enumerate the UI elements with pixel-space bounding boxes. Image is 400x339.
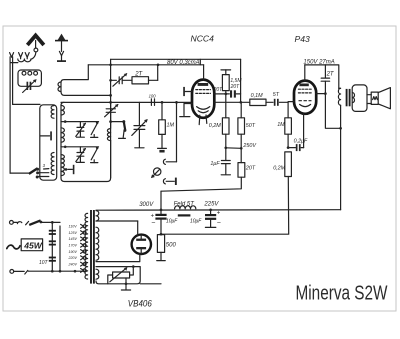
power transformer core xyxy=(91,210,94,284)
trimmer capacitor xyxy=(27,82,29,90)
oscillator coil below gang 1 xyxy=(107,129,110,141)
svg-text:+: + xyxy=(217,210,221,216)
coil unit box 1 xyxy=(40,105,57,180)
antenna input terminals (forks) xyxy=(10,53,14,58)
power rating box 45W xyxy=(7,239,43,251)
coupling capacitor 20T xyxy=(213,87,241,97)
wire (twin down-lead) xyxy=(9,57,11,173)
pickup input branch xyxy=(163,101,177,164)
B+ rail 300V/225V xyxy=(96,209,341,212)
resistor 2T xyxy=(132,77,149,84)
secondary winding xyxy=(352,93,354,103)
svg-text:220V: 220V xyxy=(68,256,78,260)
ground xyxy=(135,147,144,149)
mains input terminals and switch xyxy=(10,220,61,225)
tube NCC4 xyxy=(180,34,215,125)
electrolytic 10uF (smoothing) xyxy=(190,210,221,228)
svg-text:300V: 300V xyxy=(139,202,154,208)
svg-text:VB406: VB406 xyxy=(128,299,153,309)
node on tuning branch xyxy=(109,120,112,123)
input tuned-circuit box with trimmer xyxy=(18,70,41,93)
grid resistor 0,2M of second stage xyxy=(209,94,229,148)
trimmer arrow xyxy=(23,81,35,93)
svg-text:Minerva S2W: Minerva S2W xyxy=(296,282,388,305)
winding group b xyxy=(61,128,64,142)
svg-text:NCC4: NCC4 xyxy=(191,34,215,44)
svg-text:2T: 2T xyxy=(134,71,143,77)
anode plate xyxy=(299,84,308,87)
hum potentiometer xyxy=(113,272,130,278)
main vertical: tuning bus xyxy=(110,59,112,108)
resistor 0,1M xyxy=(250,93,273,105)
trimmer row 1 bus xyxy=(61,121,99,123)
wire antenna plug lead xyxy=(31,52,36,59)
screen lead xyxy=(304,65,306,81)
grids (dashed) xyxy=(196,89,211,91)
svg-text:0,2M: 0,2M xyxy=(209,123,221,129)
rectifier tube VB406 xyxy=(132,235,151,254)
speaker frame xyxy=(352,85,367,112)
antenna coupling coil L1 xyxy=(21,57,28,59)
trimmer row 2 bus xyxy=(61,146,99,148)
HT winding xyxy=(96,211,138,236)
winding group a xyxy=(61,105,64,115)
svg-text:80V 0,3cmA: 80V 0,3cmA xyxy=(167,60,200,66)
svg-text:P43: P43 xyxy=(295,34,311,44)
resistor 500 xyxy=(157,233,177,261)
svg-text:0,1M: 0,1M xyxy=(251,93,263,99)
svg-text:190V: 190V xyxy=(69,250,78,254)
wire xyxy=(10,62,18,64)
voltage selector taps xyxy=(60,224,86,272)
line filter capacitors xyxy=(39,222,56,270)
svg-text:0,2μF: 0,2μF xyxy=(294,139,308,145)
wire jog to anode line xyxy=(199,59,201,65)
cathode lead xyxy=(303,114,305,148)
svg-text:225V: 225V xyxy=(203,202,219,208)
pickup symbol (circle with arrow) xyxy=(151,168,161,178)
anode plate xyxy=(198,83,209,86)
grid line NCC4 xyxy=(61,101,192,103)
speaker voice coil xyxy=(367,92,378,104)
wire to band switch xyxy=(111,121,124,123)
tuning gang capacitor section 1 xyxy=(105,102,127,178)
capacitor 5T (series) xyxy=(273,92,288,106)
speaker cone xyxy=(378,88,390,109)
mains terminal 2 xyxy=(10,270,87,275)
node: osc box bottom to tuning line xyxy=(109,94,112,97)
svg-text:1μF: 1μF xyxy=(210,161,220,167)
heater pins xyxy=(198,115,201,124)
pickup plug xyxy=(163,178,176,185)
anode lead xyxy=(203,65,205,80)
grid pin xyxy=(288,101,294,103)
svg-text:−: − xyxy=(151,220,155,227)
svg-text:10μF: 10μF xyxy=(166,218,178,224)
band switch lever (osc) xyxy=(124,122,125,130)
band switch row1 xyxy=(91,123,97,134)
electrolytic 10uF (reservoir) xyxy=(151,210,179,235)
coil top xyxy=(51,106,54,119)
coil inside box xyxy=(22,71,26,75)
internal capacitor xyxy=(40,135,49,137)
svg-text:20T: 20T xyxy=(213,87,224,93)
ground xyxy=(158,147,167,149)
coil bottom xyxy=(51,153,54,175)
heater winding + hum pot xyxy=(96,265,161,290)
svg-text:+: + xyxy=(151,213,155,219)
svg-text:−: − xyxy=(217,220,221,227)
wire to coil box 1 xyxy=(13,103,40,105)
anode feed wire with label 80V 0.3cmA xyxy=(88,64,203,66)
svg-text:125V: 125V xyxy=(69,231,78,235)
capacitor 100 (series) xyxy=(149,93,157,105)
svg-text:2T: 2T xyxy=(326,72,335,78)
svg-text:1M: 1M xyxy=(167,123,175,129)
svg-text:45W: 45W xyxy=(23,241,43,251)
oscillator feedback coil xyxy=(58,65,111,96)
svg-text:20T: 20T xyxy=(245,166,256,172)
screen feed wire xyxy=(160,191,162,210)
wire cathode node xyxy=(226,147,241,150)
winding group c xyxy=(61,155,64,176)
svg-text:0,2M: 0,2M xyxy=(273,166,285,172)
150V supply wire xyxy=(303,59,338,88)
svg-text:5T: 5T xyxy=(273,92,280,98)
cathode arcs xyxy=(197,107,210,110)
trimmer cap row2 xyxy=(79,147,81,153)
svg-text:100: 100 xyxy=(149,93,157,98)
svg-text:240V: 240V xyxy=(68,262,78,266)
svg-text:145V: 145V xyxy=(69,237,78,241)
trimmer cap row1 xyxy=(79,122,81,128)
anode resistor 1,5M / 20T with stub xyxy=(221,70,242,94)
svg-text:10T: 10T xyxy=(39,260,49,266)
cathode arc xyxy=(300,104,311,106)
band switch row2 xyxy=(91,148,97,159)
tuning gang capacitor section 2 xyxy=(132,102,148,147)
filament winding (rectifier) xyxy=(96,227,140,261)
svg-text:50T: 50T xyxy=(246,123,256,129)
primary winding (tapped) xyxy=(85,213,88,279)
antenna symbol (arrow) xyxy=(29,35,43,51)
screen resistor 50T xyxy=(238,102,257,162)
vertical from supply rail xyxy=(240,59,242,102)
svg-text:20T: 20T xyxy=(230,84,241,90)
svg-text:500: 500 xyxy=(166,242,177,248)
capacitor 2T (P43) xyxy=(321,65,335,94)
svg-text:1M: 1M xyxy=(277,122,285,128)
primary winding xyxy=(338,88,340,105)
earth/counterpoise antenna symbol xyxy=(55,34,68,62)
svg-text:10μF: 10μF xyxy=(190,218,202,224)
tube P43 xyxy=(288,34,316,148)
output transformer xyxy=(338,88,354,210)
node 2T branch xyxy=(109,79,112,82)
cathode bypass 1uF xyxy=(210,146,230,174)
grid cap terminal xyxy=(185,91,192,93)
coil unit box 2 (band coils) xyxy=(61,102,111,181)
dropping branch: trimmer + resistor 2T xyxy=(111,65,158,86)
wave band switch xyxy=(10,163,49,179)
grid leak resistor 1M xyxy=(158,102,175,152)
cathode network P43: 0,2uF + 0,2M xyxy=(161,139,308,235)
grids (dashed) xyxy=(298,88,311,90)
node xyxy=(109,63,112,66)
anode line second triode xyxy=(214,101,250,103)
core xyxy=(346,89,348,106)
svg-text:170V: 170V xyxy=(69,244,78,248)
plate wire P43 xyxy=(316,93,325,95)
field coil choke Feld 5T xyxy=(174,201,196,215)
resistor 20T lower xyxy=(161,163,256,192)
svg-text:250V: 250V xyxy=(242,143,257,149)
socket xyxy=(163,159,165,164)
wire xyxy=(140,283,161,285)
wiper to ground xyxy=(125,278,127,289)
internal capacitor tap xyxy=(68,168,73,170)
grid resistor 1M (P43) xyxy=(277,102,291,147)
cathode to ground xyxy=(184,104,192,116)
svg-text:110V: 110V xyxy=(69,225,78,229)
80V supply rail xyxy=(111,58,241,60)
